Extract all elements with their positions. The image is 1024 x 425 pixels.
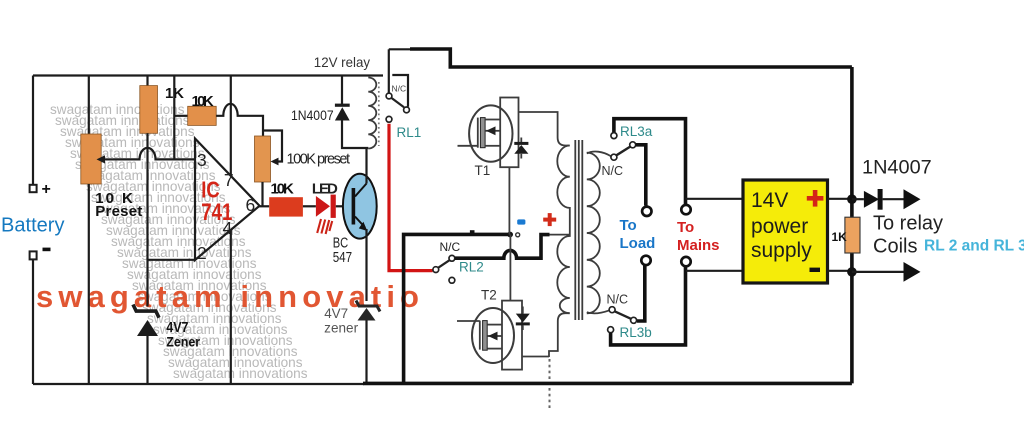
svg-text:Preset: Preset xyxy=(95,203,142,220)
diode 1N4007 relay top lead xyxy=(341,76,343,105)
diode 1N4007 right xyxy=(852,189,883,210)
svg-text:6: 6 xyxy=(246,195,256,215)
wire T1 source down xyxy=(508,167,510,234)
transistor T2 gate lead xyxy=(457,321,480,350)
transistor T1 gate lead xyxy=(458,118,478,148)
svg-text:power: power xyxy=(751,215,808,238)
label 1K right xyxy=(832,230,848,244)
wire bottom rail thin xyxy=(33,383,364,385)
label N/C RL3b xyxy=(607,293,629,307)
wire left rail upper xyxy=(32,76,34,185)
svg-text:RL2: RL2 xyxy=(459,260,484,275)
svg-text:+: + xyxy=(42,181,51,198)
wire preset 100K bottom xyxy=(261,182,263,206)
svg-text:RL 2 and RL 3: RL 2 and RL 3 xyxy=(924,238,1024,255)
label RL3b xyxy=(620,325,652,340)
wire wiper to pin3 with hop xyxy=(113,148,195,160)
wire minus loop thick xyxy=(404,234,509,383)
label RL 2 and RL 3 xyxy=(924,238,1024,255)
wire T1 drain to primary top xyxy=(519,112,570,146)
terminal To Load bottom ring xyxy=(641,256,650,265)
relay RL3b pole circle xyxy=(631,317,637,323)
LED rays xyxy=(317,219,332,234)
label IC 741 xyxy=(201,176,232,226)
relay contact NC circle xyxy=(386,93,392,99)
watermark gray rows xyxy=(50,102,308,381)
relay RL2 NO circle xyxy=(449,277,455,283)
wire rail3 mid xyxy=(146,133,148,306)
preset 10K body xyxy=(81,134,101,184)
node minus junction dot xyxy=(507,232,513,238)
svg-text:RL1: RL1 xyxy=(397,125,422,140)
node diode junction dot top xyxy=(847,194,857,204)
svg-text:N/C: N/C xyxy=(607,293,629,307)
svg-text:RL3b: RL3b xyxy=(620,325,652,340)
svg-text:2: 2 xyxy=(197,243,207,263)
label 10 K Preset xyxy=(95,190,142,220)
relay RL3b armature xyxy=(615,311,631,319)
wire rail2 upper xyxy=(88,76,90,135)
label N/C RL3a xyxy=(602,164,624,178)
label 100K preset xyxy=(287,152,351,168)
wire rail3 upper xyxy=(146,76,148,86)
relay coil xyxy=(368,78,376,149)
wire arrow to relay coils top xyxy=(883,189,921,209)
wire opamp output xyxy=(258,205,269,207)
svg-text:N/C: N/C xyxy=(602,164,624,178)
svg-text:To: To xyxy=(677,219,694,236)
watermark red swagatam innovatio xyxy=(36,279,424,314)
diode 1N4007 relay bottom lead xyxy=(342,121,368,149)
transistor T1 circle xyxy=(469,105,512,161)
label RL1 xyxy=(397,125,422,140)
svg-text:1N4007: 1N4007 xyxy=(291,107,334,123)
svg-text:N/C: N/C xyxy=(440,240,461,254)
relay RL3b NC circle xyxy=(609,307,615,313)
wire T2 source stub xyxy=(522,356,549,358)
wire emitter down xyxy=(365,229,367,301)
svg-text:Coils: Coils xyxy=(873,236,917,258)
relay RL3a NC circle xyxy=(611,154,617,160)
wire RL1 red xyxy=(389,124,433,271)
svg-text:T1: T1 xyxy=(475,163,491,178)
label To relay Coils xyxy=(873,213,943,258)
wire secondary top lead xyxy=(587,152,611,157)
transistor Q1 internals xyxy=(352,184,368,232)
wire thick top from relay xyxy=(410,49,852,67)
label 1K xyxy=(165,85,184,102)
relay RL2 NC circle xyxy=(449,255,455,261)
wire pin2 xyxy=(148,259,196,261)
relay RL3a armature xyxy=(616,147,630,156)
svg-text:741: 741 xyxy=(201,199,232,226)
battery plus terminal xyxy=(30,181,51,198)
label supply minus xyxy=(810,268,821,272)
label RL2 xyxy=(459,260,484,275)
label 12V relay xyxy=(314,54,370,70)
label plus red center tap xyxy=(543,213,556,226)
terminal To Mains bottom ring xyxy=(681,257,690,266)
wire 10K right with hop xyxy=(216,104,263,136)
svg-text:100K preset: 100K preset xyxy=(287,152,351,168)
label supply plus xyxy=(807,190,824,207)
LED triangle xyxy=(316,196,330,217)
label minus blue xyxy=(517,219,525,224)
svg-text:7: 7 xyxy=(224,170,234,190)
wire top rail xyxy=(33,74,383,76)
label pin 6 xyxy=(246,195,256,215)
label Battery xyxy=(1,215,65,237)
resistor 1K body xyxy=(140,86,158,134)
terminal To Mains top ring xyxy=(681,205,690,214)
relay RL3b NO circle xyxy=(608,327,614,333)
LED cathode bar xyxy=(331,195,336,218)
resistor 10K output body xyxy=(269,197,303,216)
svg-text:To relay: To relay xyxy=(873,213,943,235)
transistor T2 circle xyxy=(472,308,514,363)
preset 100K wiper bracket xyxy=(263,131,282,166)
svg-text:4V7: 4V7 xyxy=(324,306,348,321)
svg-text:T2: T2 xyxy=(481,288,497,303)
preset 10K wiper arrow xyxy=(97,155,114,163)
node junction dot bottom xyxy=(847,267,857,277)
label T1 xyxy=(475,163,491,178)
zener 4V7 right cathode bar xyxy=(356,301,380,312)
svg-text:Mains: Mains xyxy=(677,237,720,254)
svg-text:3: 3 xyxy=(197,150,207,170)
label BC 547 xyxy=(333,235,352,266)
transistor T2 channel bar xyxy=(483,321,488,351)
resistor 10K body horizontal xyxy=(188,106,217,125)
svg-text:10K: 10K xyxy=(271,180,294,197)
label 10K top xyxy=(192,93,214,110)
svg-text:12V relay: 12V relay xyxy=(314,54,370,70)
svg-text:LED: LED xyxy=(312,180,338,197)
wire bottom rail thick xyxy=(363,382,852,386)
wire To Load bottom to RL3b pole xyxy=(637,265,645,321)
wire pin7 xyxy=(230,76,232,177)
resistor 1K right body xyxy=(845,217,860,253)
wire LED to base xyxy=(336,205,352,207)
relay RL2 pole circle xyxy=(433,267,439,273)
zener 4V7 right anode triangle xyxy=(358,308,376,321)
label To Load xyxy=(620,217,656,252)
transformer core xyxy=(575,140,582,320)
transistor Q1 BC547 body xyxy=(343,174,377,239)
label pin 7 xyxy=(224,170,234,190)
wire RL2 NC to center tap with hop xyxy=(455,235,550,259)
relay RL3a pole circle xyxy=(630,142,636,148)
svg-text:14V: 14V xyxy=(751,189,788,212)
transformer primary winding xyxy=(557,146,570,314)
svg-text:10K: 10K xyxy=(192,93,214,110)
svg-text:supply: supply xyxy=(751,239,812,262)
wire relay pole bracket xyxy=(392,75,408,107)
op-amp U1 triangle xyxy=(195,139,260,261)
transformer secondary winding xyxy=(587,153,600,314)
wire supply minus out xyxy=(828,270,852,272)
label To Mains xyxy=(677,219,720,254)
relay armature xyxy=(391,98,404,108)
wire RL3b NO to mains bottom xyxy=(611,267,686,345)
svg-text:swagatam innovations: swagatam innovations xyxy=(173,366,308,381)
transistor T2 stubs and arrow xyxy=(487,325,502,349)
wire mains bottom to supply minus xyxy=(686,270,743,272)
wire secondary bottom lead xyxy=(587,310,610,313)
wire RL3a thick bracket xyxy=(614,119,686,205)
preset 100K body xyxy=(255,136,271,182)
label 10K output xyxy=(271,180,294,197)
svg-text:Zener: Zener xyxy=(166,335,200,350)
wire zener to bottom rail xyxy=(365,321,367,385)
label pin 2 xyxy=(197,243,207,263)
wire tee to 10K resistor xyxy=(174,115,187,117)
wire center tap xyxy=(550,234,570,236)
svg-text:1N4007: 1N4007 xyxy=(862,158,932,179)
wire left rail lower xyxy=(32,259,34,384)
label pin 3 xyxy=(197,150,207,170)
junction nub xyxy=(470,230,475,234)
label N/C relay small xyxy=(392,84,407,94)
zener 4V7 left cathode bar xyxy=(133,305,159,318)
wire RL3a pole to load xyxy=(636,145,646,206)
svg-text:To: To xyxy=(620,217,637,234)
wire arrow bottom right xyxy=(852,262,921,282)
relay pole circle xyxy=(404,107,410,113)
relay NO circle xyxy=(386,116,392,122)
svg-text:N/C: N/C xyxy=(392,84,407,94)
svg-text:1K: 1K xyxy=(832,230,848,244)
terminal To Load top ring xyxy=(642,207,651,216)
relay RL3a top circle xyxy=(611,133,617,139)
svg-text:Load: Load xyxy=(620,235,656,252)
wire vertical to 10K left xyxy=(173,76,175,160)
label N/C RL2 xyxy=(440,240,461,254)
wire pin4 xyxy=(230,230,232,384)
transistor T1 channel bar xyxy=(480,118,485,148)
wire relay NC up xyxy=(388,49,390,93)
label 4V7 Zener xyxy=(166,320,200,350)
power supply 14V box xyxy=(743,180,828,283)
svg-text:547: 547 xyxy=(333,249,352,266)
label 4V7 zener gray xyxy=(324,306,358,335)
svg-text:Battery: Battery xyxy=(1,215,65,237)
transistor T1 stubs and arrow xyxy=(485,120,500,146)
node minus terminal circlet xyxy=(516,233,520,237)
diode 1N4007 relay triangle xyxy=(335,107,350,120)
svg-text:zener: zener xyxy=(324,320,358,335)
wire relay top thin xyxy=(389,48,411,50)
wire mains top to supply plus xyxy=(686,198,744,200)
diode T1 body xyxy=(514,138,528,159)
wire primary bottom link xyxy=(549,313,570,357)
label pin 4 xyxy=(223,218,233,238)
wire rail3 lower xyxy=(146,336,148,384)
label 1N4007 right xyxy=(862,158,932,179)
wire right thick vertical xyxy=(850,67,854,383)
wire to LED xyxy=(303,205,316,207)
relay coil dotted core xyxy=(378,82,380,146)
wire collector up xyxy=(365,148,367,184)
label T2 xyxy=(481,288,497,303)
transistor T1 package rect xyxy=(500,98,518,168)
relay RL2 armature xyxy=(438,260,449,268)
label RL3a xyxy=(620,124,653,139)
wire rail2 lower xyxy=(88,184,90,384)
wire dashed to battery xyxy=(549,359,551,408)
label 1N4007 relay xyxy=(291,107,334,123)
diode T2 body xyxy=(516,307,530,331)
zener 4V7 left anode triangle xyxy=(137,320,158,336)
wire T2 drain up xyxy=(509,235,511,301)
transistor T2 package rect xyxy=(502,301,522,370)
battery minus terminal xyxy=(30,248,51,260)
label LED xyxy=(312,180,338,197)
svg-text:RL3a: RL3a xyxy=(620,124,653,139)
label 14V power supply xyxy=(751,189,812,262)
diode 1N4007 relay cathode bar xyxy=(335,104,350,107)
wire supply plus out xyxy=(828,198,852,200)
